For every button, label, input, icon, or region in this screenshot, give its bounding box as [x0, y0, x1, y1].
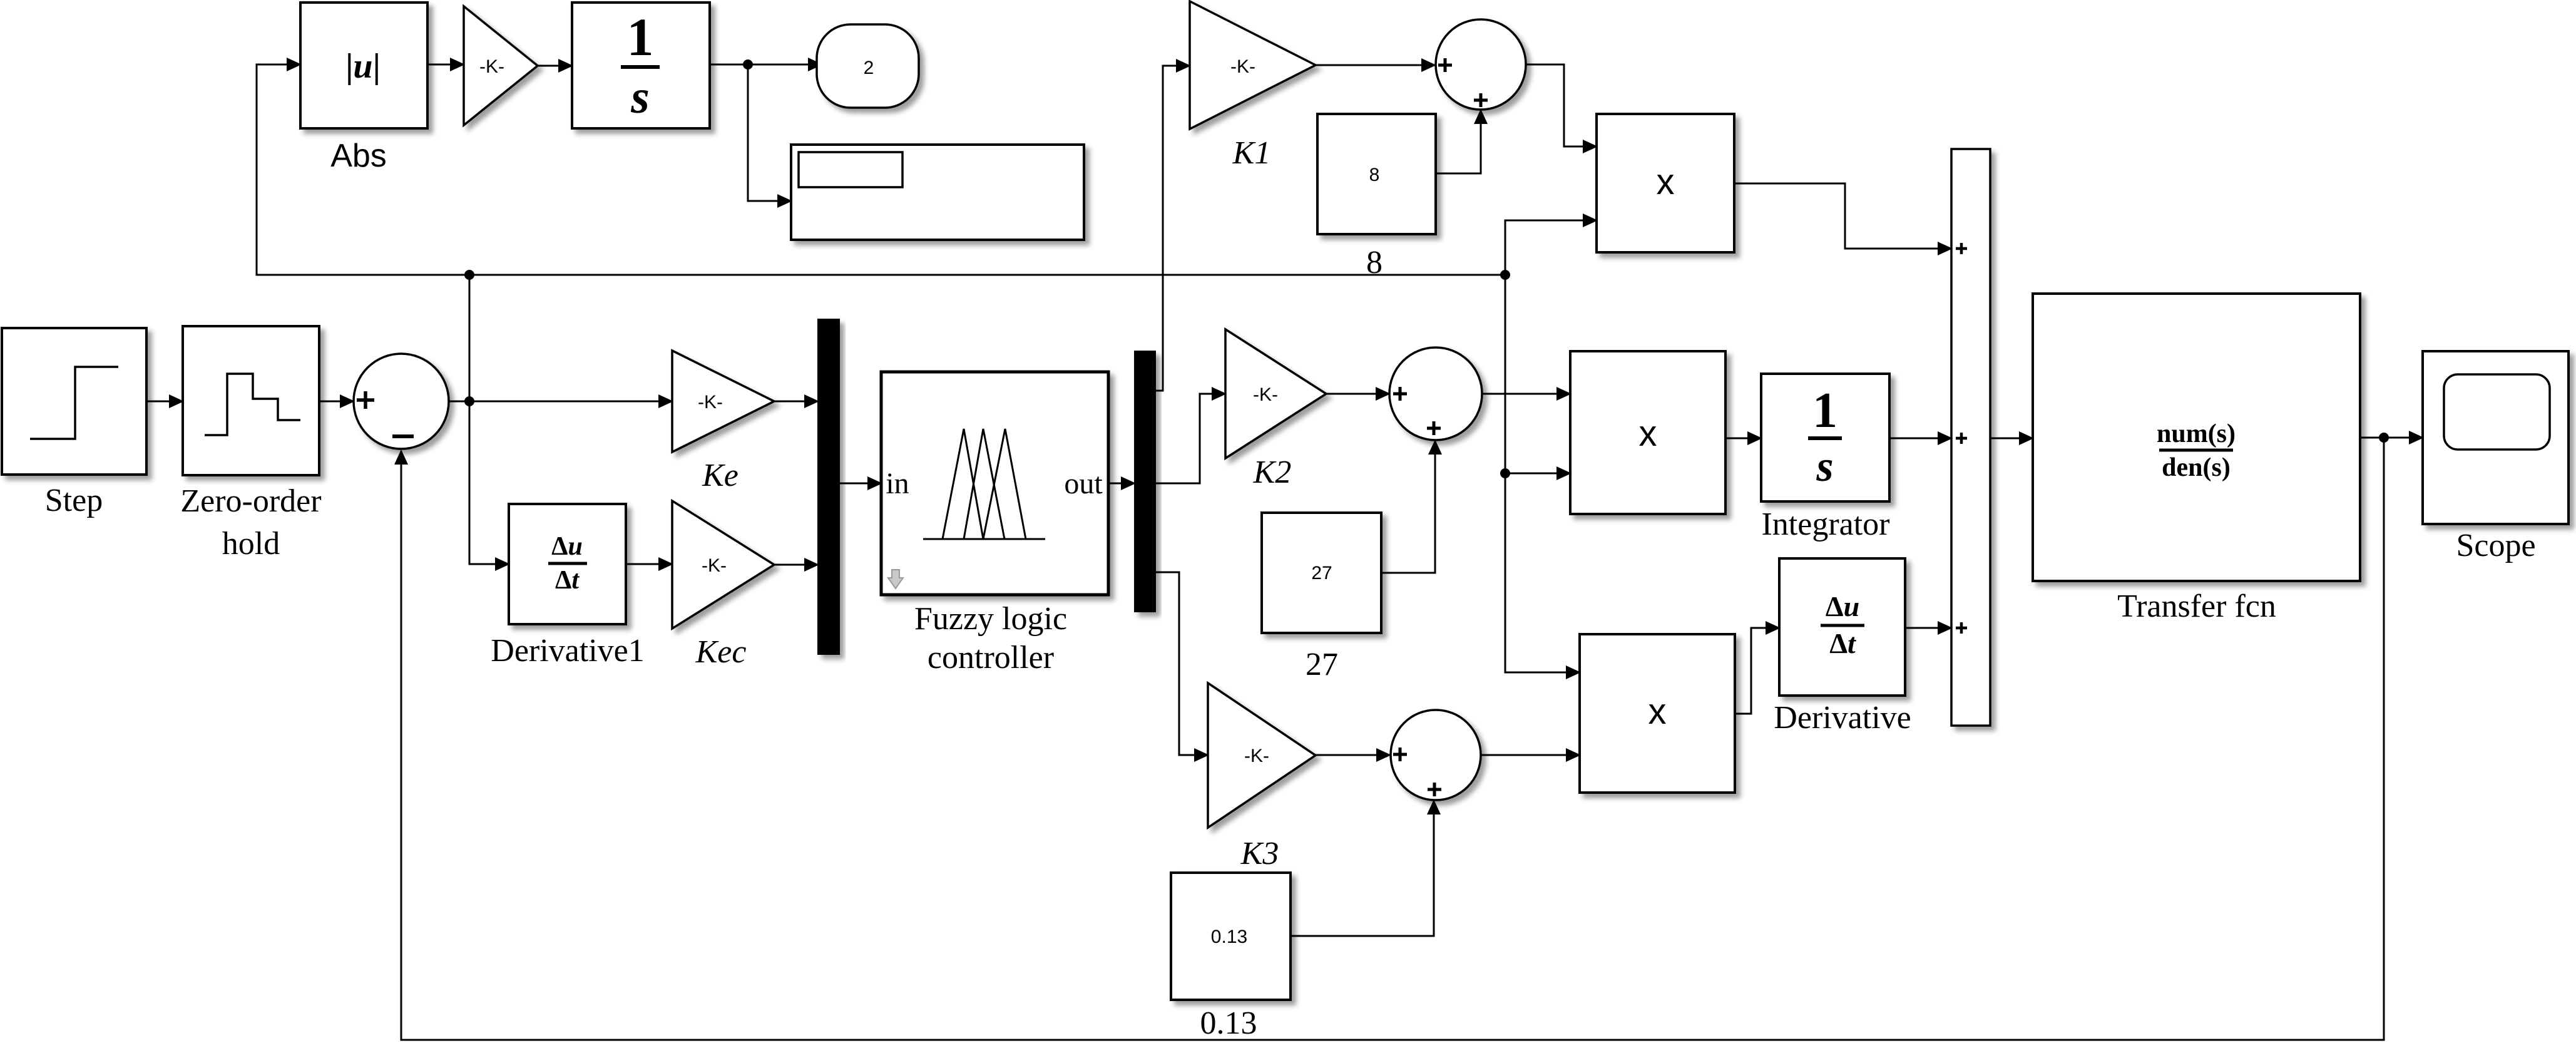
wire Ke to mux [774, 401, 818, 403]
svg-text:s: s [630, 71, 650, 123]
product Product2 [1570, 351, 1725, 514]
svg-text:den(s): den(s) [2162, 453, 2231, 482]
svg-text:-K-: -K- [1244, 746, 1269, 766]
block Derivative1 (du/dt) [509, 504, 626, 624]
svg-text:0.13: 0.13 [1200, 1005, 1257, 1041]
wire K2 to Sum3 [1326, 393, 1389, 395]
label Step [45, 483, 103, 518]
svg-text:-K-: -K- [702, 555, 727, 576]
label Kec [695, 634, 747, 670]
svg-text:2: 2 [864, 58, 874, 78]
svg-text:Δt: Δt [555, 566, 580, 595]
node product column mid [1500, 468, 1510, 478]
svg-text:Transfer fcn: Transfer fcn [2117, 588, 2276, 624]
label Transfer fcn [2117, 588, 2276, 624]
svg-text:Integrator: Integrator [1761, 506, 1889, 542]
label K2 [1253, 455, 1292, 490]
svg-text:-K-: -K- [1230, 56, 1255, 77]
gain Kec [672, 501, 774, 629]
wire Sum2 to Product1 [1526, 64, 1597, 146]
node before Scope [2379, 433, 2389, 443]
label 8 [1366, 245, 1383, 280]
svg-text:x: x [1657, 162, 1675, 202]
wire Product1 to Add bar [1734, 183, 1951, 249]
node product column [1500, 270, 1510, 280]
node on Abs feed line [464, 270, 474, 280]
wire constant 8 to Sum2 [1436, 110, 1481, 173]
wire error line left-up into Abs [257, 64, 469, 275]
svg-text:Δu: Δu [551, 532, 583, 561]
wire Zero-order hold to Sum1 [319, 401, 354, 403]
svg-text:hold: hold [222, 526, 280, 562]
label Ke [702, 458, 739, 493]
svg-text:27: 27 [1306, 647, 1338, 682]
wire Integrator to Add bar [1889, 438, 1951, 439]
block Zero-order hold [183, 326, 319, 475]
svg-text:s: s [1816, 443, 1833, 491]
wire error branch down to Derivative1 [469, 401, 509, 564]
wire K3 to Sum4 [1316, 754, 1390, 756]
svg-text:out: out [1064, 467, 1103, 500]
svg-text:num(s): num(s) [2157, 419, 2236, 448]
demux bar [1135, 351, 1155, 612]
wire Derivative1 to Kec [626, 563, 672, 565]
mux bar [818, 319, 839, 654]
outport oval 2 [817, 24, 919, 108]
svg-text:-K-: -K- [479, 56, 504, 77]
block Integrator (1/s) [1761, 374, 1889, 501]
wire K1 to Sum2 [1316, 64, 1435, 66]
wire column node to Product2 [1505, 473, 1570, 475]
wire error line right to product column node [469, 274, 1505, 276]
svg-text:K1: K1 [1232, 135, 1271, 171]
svg-text:x: x [1648, 691, 1667, 732]
svg-text:Derivative1: Derivative1 [491, 633, 644, 669]
svg-text:Scope: Scope [2456, 528, 2535, 563]
label Scope [2456, 528, 2535, 563]
wire Step to Zero-order hold [146, 401, 183, 403]
wire Transfer fcn to Scope [2360, 437, 2423, 439]
svg-text:-K-: -K- [1253, 384, 1278, 405]
wire demux output 3 down to K3 [1155, 572, 1208, 755]
wire feedback from Scope node to Sum1 [401, 438, 2384, 1040]
wire column node up to Product1 [1505, 220, 1597, 275]
svg-text:Zero-order: Zero-order [180, 483, 321, 519]
wire Kec to mux [774, 564, 818, 566]
svg-text:1: 1 [1812, 383, 1837, 438]
gain K3 [1208, 683, 1316, 828]
wire Integrator1 to outport 2 [710, 64, 822, 66]
svg-text:Ke: Ke [702, 458, 739, 493]
wire Abs to Gain1 [427, 64, 464, 66]
gain K1 [1190, 1, 1316, 129]
label 27 [1306, 647, 1338, 682]
gain Gain1 [464, 6, 538, 125]
svg-text:Δt: Δt [1829, 627, 1856, 659]
block Fuzzy logic controller [881, 372, 1108, 595]
label Abs [330, 138, 387, 174]
constant 8 [1317, 114, 1436, 234]
svg-text:Step: Step [45, 483, 103, 518]
sum junction Sum1 [354, 354, 449, 449]
gain K2 [1225, 329, 1326, 458]
svg-text:K2: K2 [1253, 455, 1292, 490]
wire demux output 1 up to K1 [1155, 66, 1190, 391]
wire Gain1 to Integrator1 [538, 65, 572, 67]
svg-text:-K-: -K- [698, 392, 723, 413]
product Product1 [1597, 114, 1734, 252]
sum junction Sum3 [1389, 347, 1482, 440]
wire node down to workspace block [748, 64, 791, 201]
label Derivative1 [491, 633, 644, 669]
svg-text:Derivative: Derivative [1774, 700, 1911, 736]
wire Sum4 to Product3 [1481, 754, 1580, 756]
wire Product3 to Derivative [1735, 628, 1779, 714]
label K1 [1232, 135, 1271, 171]
wire Derivative to Add bar [1905, 627, 1951, 629]
svg-text:x: x [1639, 413, 1657, 454]
block Derivative (du/dt) [1779, 558, 1905, 696]
svg-text:0.13: 0.13 [1211, 927, 1247, 947]
wire mux to Fuzzy controller [839, 483, 881, 485]
gain Ke [672, 351, 774, 452]
block Transfer fcn [2033, 294, 2360, 581]
label Integrator [1761, 506, 1889, 542]
svg-text:1: 1 [627, 7, 654, 67]
source block Step [2, 328, 146, 475]
svg-text:27: 27 [1311, 563, 1332, 583]
svg-text:in: in [886, 467, 909, 500]
wire constant 0.13 to Sum4 [1291, 801, 1434, 936]
constant 27 [1262, 513, 1381, 633]
svg-text:K3: K3 [1240, 836, 1279, 871]
wire constant 27 to Sum3 [1381, 441, 1435, 573]
wire Sum1 output to gain Ke [449, 401, 672, 403]
svg-text:Fuzzy logic: Fuzzy logic [914, 601, 1067, 637]
wire error tap rising to Abs line [469, 275, 471, 401]
wire Add bar to Transfer fcn [1990, 438, 2033, 439]
constant 0.13 [1171, 873, 1291, 1000]
block Integrator1 (1/s) [572, 3, 710, 128]
label Fuzzy logic controller [914, 601, 1067, 676]
svg-text:Kec: Kec [695, 634, 747, 670]
wire Product2 to Integrator [1725, 438, 1761, 439]
sum junction Sum2 [1436, 19, 1526, 110]
product Product3 [1580, 634, 1735, 793]
svg-text:controller: controller [928, 640, 1054, 676]
block Abs [300, 3, 427, 128]
svg-text:8: 8 [1369, 165, 1380, 185]
svg-text:|u|: |u| [345, 47, 381, 86]
label 0.13 [1200, 1005, 1257, 1041]
node on error line [464, 396, 474, 406]
svg-text:Δu: Δu [1826, 590, 1859, 622]
block Scope [2423, 351, 2568, 524]
wire demux output 2 to K2 [1155, 394, 1225, 483]
sum junction Sum4 [1391, 710, 1481, 800]
wire Sum3 to Product2 [1482, 393, 1570, 395]
label Derivative [1774, 700, 1911, 736]
label K3 [1240, 836, 1279, 871]
svg-text:Abs: Abs [330, 138, 387, 174]
svg-text:8: 8 [1366, 245, 1383, 280]
sum bar Add [1951, 149, 1990, 726]
node after Integrator1 [743, 59, 753, 69]
wire Fuzzy controller to demux [1108, 483, 1135, 485]
wire product column down to Product3 [1505, 275, 1580, 672]
label Zero-order hold [180, 483, 321, 562]
block workspace display [791, 145, 1084, 240]
